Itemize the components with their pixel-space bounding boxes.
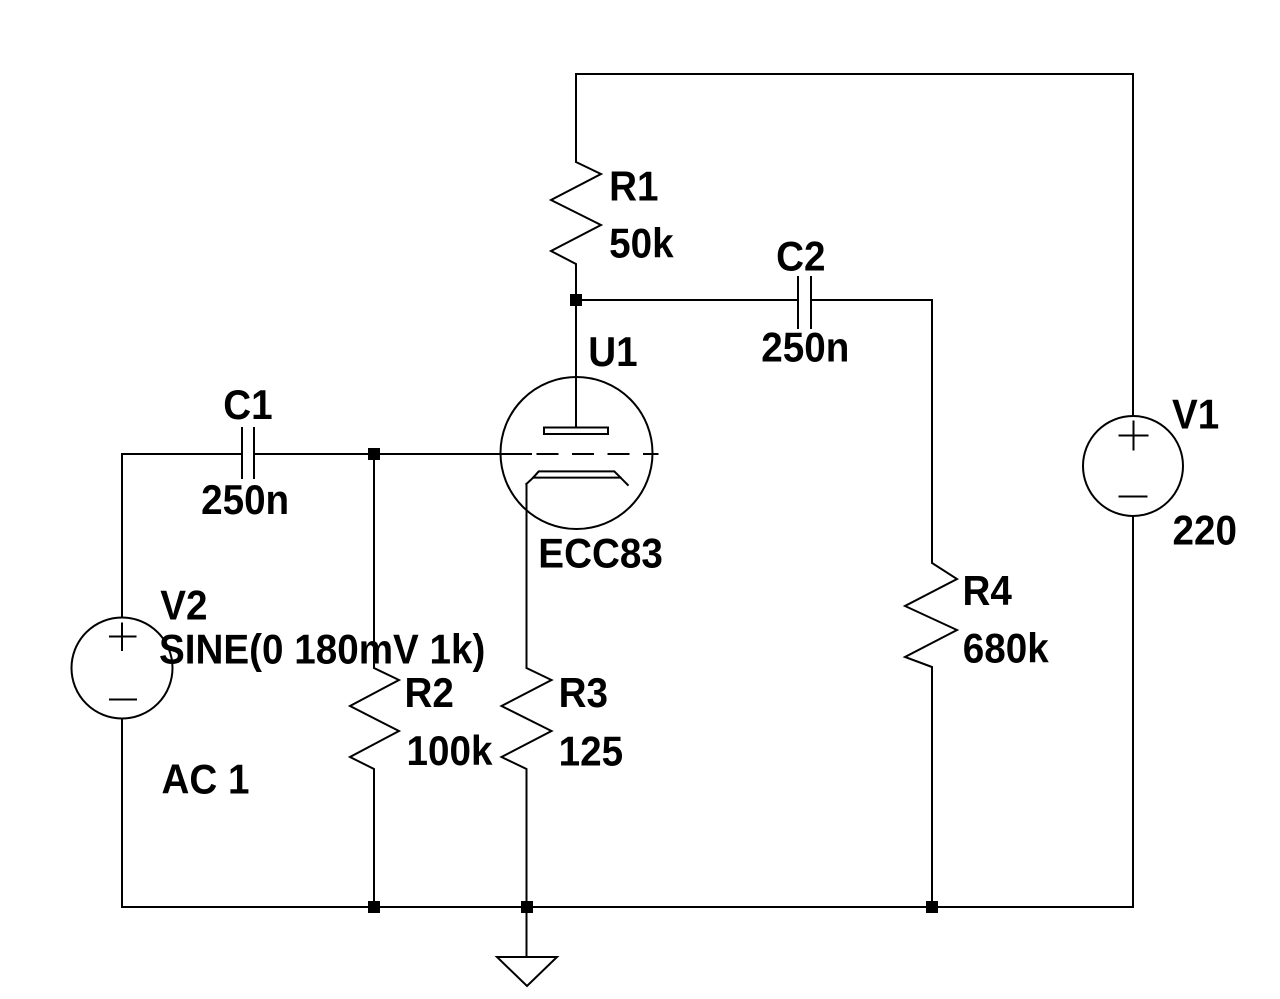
svg-text:50k: 50k xyxy=(609,219,674,267)
svg-text:R1: R1 xyxy=(609,162,658,210)
svg-text:C2: C2 xyxy=(776,232,825,280)
svg-text:100k: 100k xyxy=(407,726,493,774)
svg-text:220: 220 xyxy=(1173,506,1237,554)
svg-text:C1: C1 xyxy=(223,380,272,428)
svg-text:250n: 250n xyxy=(201,476,289,524)
svg-text:680k: 680k xyxy=(963,624,1049,672)
svg-text:V2: V2 xyxy=(160,581,207,629)
svg-text:U1: U1 xyxy=(588,327,637,375)
svg-text:R4: R4 xyxy=(963,566,1013,614)
svg-text:ECC83: ECC83 xyxy=(538,529,663,577)
svg-text:R2: R2 xyxy=(405,668,454,716)
svg-text:R3: R3 xyxy=(559,668,608,716)
svg-text:AC 1: AC 1 xyxy=(162,755,250,803)
svg-text:SINE(0 180mV 1k): SINE(0 180mV 1k) xyxy=(159,625,485,673)
svg-text:250n: 250n xyxy=(761,323,849,371)
svg-text:125: 125 xyxy=(559,727,623,775)
svg-text:V1: V1 xyxy=(1172,390,1219,438)
